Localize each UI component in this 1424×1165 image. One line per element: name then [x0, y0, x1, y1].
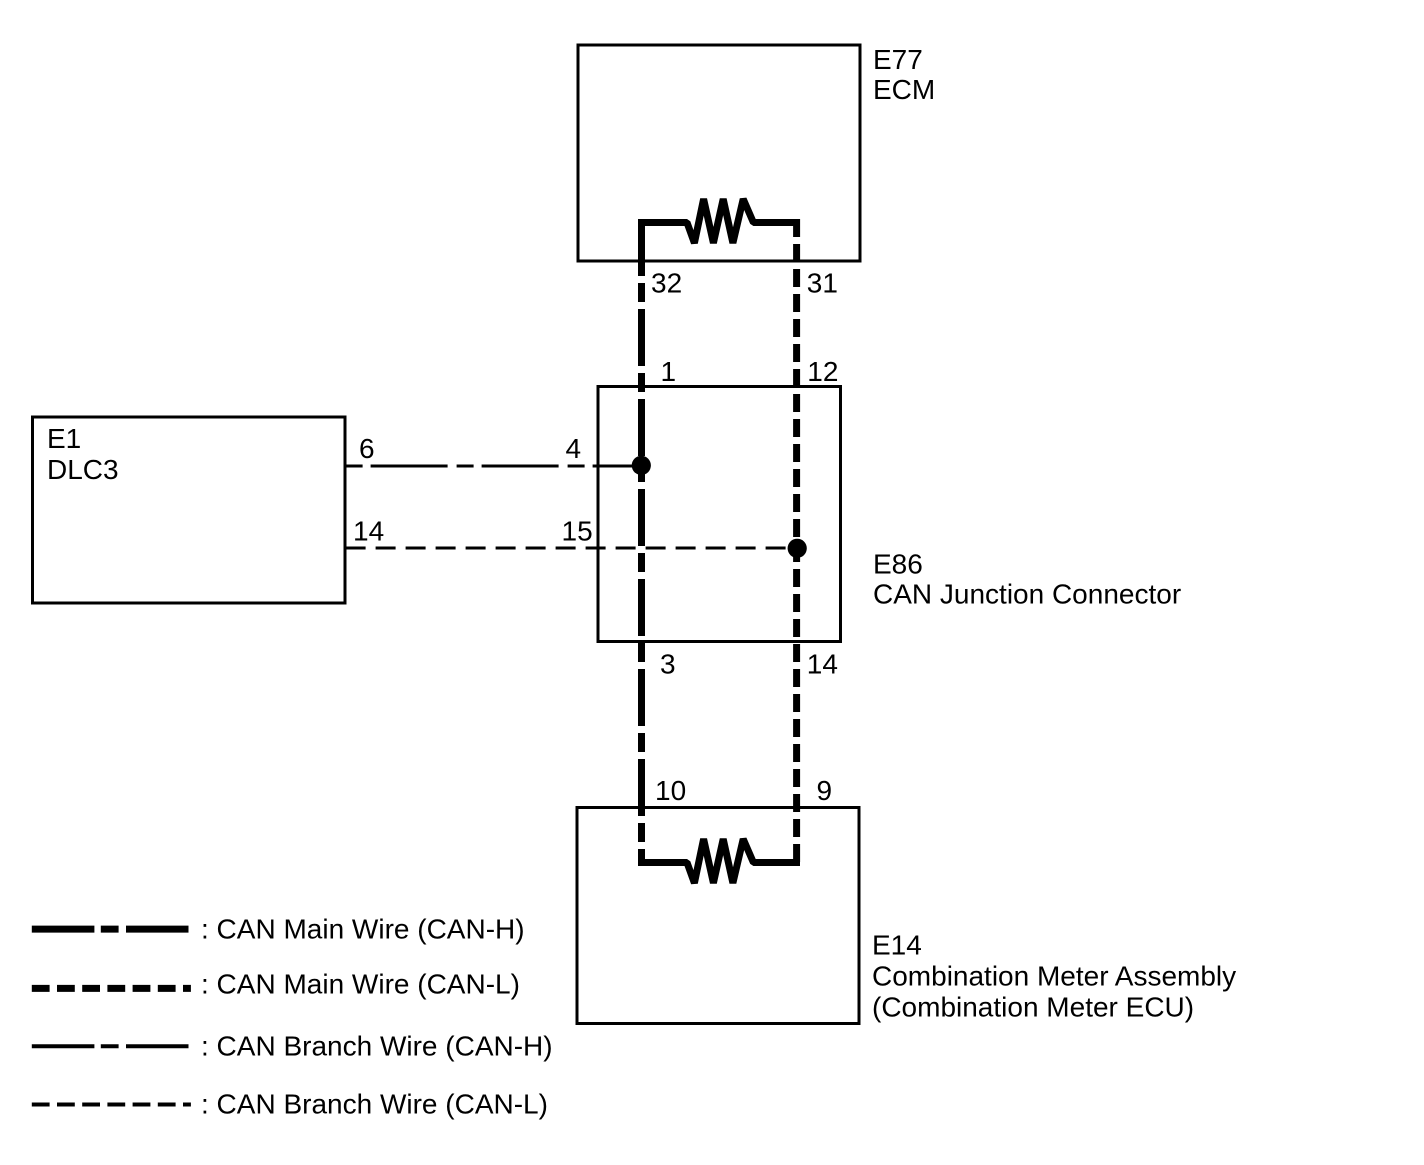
connector box E77 (ECM) [578, 45, 860, 261]
svg-text:: CAN Branch Wire (CAN-L): : CAN Branch Wire (CAN-L) [201, 1089, 548, 1120]
svg-text:1: 1 [661, 356, 677, 387]
CAN main wire CAN-L (vertical, pin 31 to pin 9) [793, 219, 800, 863]
svg-text:E14: E14 [872, 929, 922, 960]
svg-text:12: 12 [807, 356, 838, 387]
svg-text:14: 14 [353, 516, 384, 547]
legend swatch: CAN branch wire CAN-L [32, 1103, 191, 1107]
connector box E14 (Combination Meter) [577, 808, 859, 1024]
svg-text:15: 15 [562, 516, 593, 547]
legend swatch: CAN branch wire CAN-H [32, 1044, 189, 1048]
svg-text:Combination Meter Assembly: Combination Meter Assembly [872, 960, 1236, 991]
svg-text:: CAN Main Wire (CAN-L): : CAN Main Wire (CAN-L) [201, 969, 520, 1000]
svg-text:E1: E1 [47, 423, 81, 454]
legend swatch: CAN main wire CAN-L [32, 985, 191, 992]
svg-text:ECM: ECM [873, 74, 935, 105]
resistor in E77 (terminating resistor) [638, 199, 800, 243]
connector box E1 (DLC3) [33, 417, 346, 603]
svg-text:32: 32 [651, 267, 682, 298]
svg-text:6: 6 [359, 433, 375, 464]
svg-text:: CAN Main Wire (CAN-H): : CAN Main Wire (CAN-H) [201, 914, 525, 945]
CAN main wire CAN-H (vertical, pin 32 to pin 10) [638, 219, 645, 863]
legend swatch: CAN main wire CAN-H [32, 926, 189, 933]
svg-text:: CAN Branch Wire (CAN-H): : CAN Branch Wire (CAN-H) [201, 1030, 553, 1061]
resistor in E14 (terminating resistor) [638, 839, 800, 883]
svg-text:10: 10 [655, 775, 686, 806]
svg-text:9: 9 [817, 775, 833, 806]
junction node dot on CAN-L [788, 539, 807, 558]
CAN branch wire CAN-L (DLC3 pin 14 to junction pin 15) [346, 547, 797, 550]
svg-text:E77: E77 [873, 44, 923, 75]
svg-text:CAN Junction Connector: CAN Junction Connector [873, 578, 1181, 609]
svg-text:(Combination Meter ECU): (Combination Meter ECU) [872, 991, 1194, 1022]
svg-text:DLC3: DLC3 [47, 454, 119, 485]
svg-text:31: 31 [807, 267, 838, 298]
CAN branch wire CAN-H (DLC3 pin 6 to junction pin 4) [346, 465, 642, 468]
svg-text:4: 4 [566, 433, 582, 464]
svg-text:E86: E86 [873, 548, 923, 579]
svg-text:3: 3 [660, 649, 676, 680]
junction connector box E86 [598, 387, 841, 642]
svg-text:14: 14 [807, 649, 838, 680]
junction node dot on CAN-H [632, 456, 651, 475]
